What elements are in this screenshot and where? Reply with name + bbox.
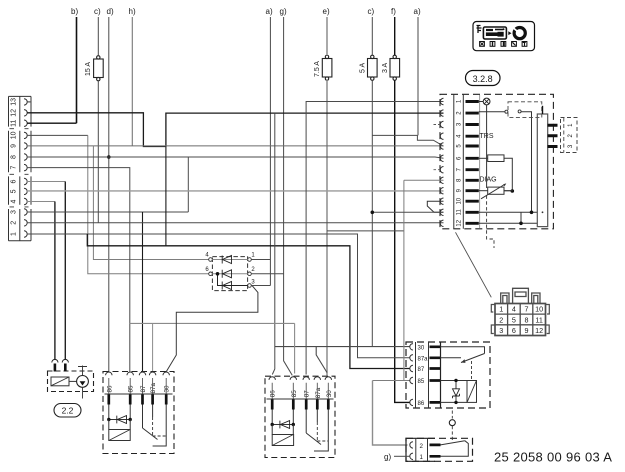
svg-text:12: 12 — [457, 219, 463, 226]
svg-text:10: 10 — [457, 197, 463, 204]
svg-text:6: 6 — [512, 326, 516, 335]
connector face center latch — [513, 288, 529, 303]
svg-text:3 A: 3 A — [382, 63, 389, 73]
wire g) to switch pin1 — [394, 455, 410, 457]
svg-text:DIAG: DIAG — [480, 177, 497, 184]
unit pin arcs 1-12 (left-bulging) — [440, 98, 443, 226]
wire g) first vertical, tees diode pin2, slants to relay K2 pin 85 — [284, 17, 293, 375]
connector body box — [9, 96, 32, 240]
diode D2 row — [212, 273, 247, 275]
svg-text:85: 85 — [291, 390, 298, 398]
wire staircase from pin3 row up to pin8 bus — [187, 157, 189, 212]
relay K1 pin arcs — [106, 372, 170, 375]
wire f) vertical through 3A fuse, corner to relay K3 pin 86 — [395, 17, 410, 402]
svg-text:30: 30 — [326, 390, 333, 398]
diode block left pin 6 — [209, 272, 213, 276]
unit output rows to right connector — [548, 125, 554, 146]
relay K2 switch contact — [306, 410, 321, 445]
icon knob ring — [514, 27, 525, 38]
svg-text:2: 2 — [11, 221, 18, 225]
relay K1 pin labels rotated — [106, 382, 170, 393]
unit DIAG dashed test lead — [487, 196, 494, 249]
pump motor axis line — [78, 366, 87, 399]
svg-text:15 A: 15 A — [85, 62, 92, 76]
fuse 5A body — [368, 55, 378, 80]
svg-text:4: 4 — [11, 199, 18, 203]
relay K3 internal rail — [440, 342, 442, 408]
relay K1 coil box — [109, 420, 130, 430]
icon radio display — [483, 27, 506, 39]
svg-text:a): a) — [266, 7, 273, 16]
wire pin6 row corner down to pump 2.2 right pin — [27, 181, 65, 183]
connector right border with group breaks — [30, 96, 32, 240]
svg-text:11: 11 — [11, 119, 18, 126]
unit pins10-11 external jumper — [427, 201, 443, 212]
wire diode pin3 to a) vertical — [251, 285, 270, 287]
wire pin3 row to staircase — [27, 211, 188, 213]
unit pin numbers rotated — [457, 99, 463, 226]
icon small buttons row — [480, 42, 527, 47]
svg-text:7.5 A: 7.5 A — [314, 61, 321, 77]
diode D3 row with feed from pin6 junction — [218, 274, 248, 286]
switch pin bars — [430, 445, 441, 456]
pin numbers 13..1 rotated — [11, 98, 18, 236]
svg-text:11: 11 — [535, 315, 542, 324]
unit connector strip verticals — [454, 94, 464, 229]
wire h) vertical to left pin9 row — [131, 17, 133, 146]
switch column separators — [416, 438, 428, 461]
junction dot c/pin11 — [371, 211, 375, 215]
relay K3 switch: pin30 lead and lever — [441, 347, 485, 354]
pump coil with diagonal — [51, 377, 69, 386]
wire pin2 row bus to unit pin12 — [27, 222, 444, 224]
icon arrow — [508, 31, 511, 35]
relay K1 junction dots — [107, 418, 110, 421]
relay K2 dashed box — [265, 376, 335, 457]
wire diode pin1 to a) vertical — [251, 259, 270, 261]
svg-text:30: 30 — [164, 385, 171, 393]
wire e) vertical through 7.5A fuse down to relay K2 pin 30 — [326, 17, 328, 376]
relay K3 dashed box — [406, 342, 490, 408]
svg-text:2.2: 2.2 — [62, 406, 74, 416]
svg-text:86: 86 — [270, 390, 277, 398]
connector face top tab left — [501, 293, 509, 304]
svg-text:e): e) — [323, 7, 330, 16]
output connector inner separator — [563, 118, 565, 153]
output connector dashed box — [561, 118, 578, 153]
pump pin arc left — [52, 359, 58, 362]
connector face grid rows — [495, 314, 546, 325]
unit internal gray rail — [479, 95, 481, 228]
svg-text:c): c) — [94, 7, 101, 16]
wire c) left vertical through 15A fuse to left pin2 row — [97, 17, 99, 223]
svg-text:86: 86 — [106, 385, 113, 393]
wire pin12 staircase to unit pin2 bus — [27, 113, 444, 147]
relay K3 pin labels — [418, 345, 429, 407]
junction dot diode pin6 — [216, 272, 220, 276]
wire a) first vertical to diode block pins 1/3 — [269, 17, 271, 286]
switch lever and return loop — [441, 441, 469, 457]
svg-text:13: 13 — [11, 98, 18, 106]
svg-text:87: 87 — [418, 367, 425, 373]
svg-text:5: 5 — [512, 315, 516, 324]
switch pin arcs — [410, 442, 413, 460]
icon box rounded frame — [473, 22, 535, 51]
svg-text:3.2.8: 3.2.8 — [473, 74, 493, 84]
svg-text:30: 30 — [418, 345, 425, 351]
svg-text:1: 1 — [499, 305, 503, 314]
relay K2 pin labels rotated — [270, 387, 333, 398]
wire b) vertical to left pin 11 — [76, 17, 78, 123]
unit pin12 internal row — [479, 222, 538, 224]
svg-text:4: 4 — [512, 305, 516, 314]
unit lamp symbol — [479, 101, 484, 103]
unit pin bars — [466, 102, 479, 224]
svg-text:b): b) — [71, 7, 78, 16]
wire vertical x=165.9 tee from staircase corner to bus — [165, 147, 167, 246]
relay K1 protection diode — [117, 416, 127, 424]
svg-text:12: 12 — [11, 109, 18, 117]
connector face body — [495, 304, 546, 336]
wire y=230.9 from e) tee to unit pin8 drop — [327, 230, 404, 232]
wire pin9 row bus to unit pin5 — [27, 145, 444, 147]
svg-text:85: 85 — [128, 385, 135, 393]
diode block left pin 4 — [209, 258, 213, 262]
svg-text:7: 7 — [11, 166, 18, 170]
wire pin1 branch down to black bus y=245.8 — [87, 234, 409, 369]
svg-text:11: 11 — [457, 209, 463, 216]
wire c) tee to unit pin11 — [372, 211, 443, 213]
wire pin11 row to b — [27, 122, 77, 124]
svg-text:25 2058 00 96 03 A: 25 2058 00 96 03 A — [494, 450, 612, 465]
svg-text:10: 10 — [11, 131, 18, 139]
relay K1 coil leads — [109, 405, 130, 420]
wire horizontal y=346.6 linking K2-86 drop, slant to K2-30, c), K3 pin30 — [275, 347, 410, 373]
svg-text:87: 87 — [140, 385, 147, 393]
svg-text:8: 8 — [525, 315, 529, 324]
svg-text:1: 1 — [420, 454, 424, 461]
icon flag mark — [477, 26, 482, 34]
unit rheostat (variable resistor) — [479, 190, 488, 192]
pump motor circle with triangle — [77, 376, 89, 388]
svg-text:86: 86 — [418, 401, 425, 407]
wire drop from unit-pin2 bus down to relay K2 pin 86 — [272, 113, 275, 374]
svg-text:a): a) — [414, 7, 421, 16]
switch actuator circle — [449, 420, 455, 426]
relay K3 lever arrow head — [461, 359, 466, 363]
svg-text:3: 3 — [499, 326, 503, 335]
svg-text:9: 9 — [525, 326, 529, 335]
svg-text:f): f) — [391, 7, 396, 16]
svg-text:87a: 87a — [150, 382, 157, 393]
svg-text:2: 2 — [420, 443, 424, 450]
pump pin bar right — [64, 364, 67, 372]
unit lamp to rheostat arrow wire — [486, 105, 488, 188]
wire pin13 stub — [27, 101, 30, 103]
label 3.2.8 stadium — [466, 71, 501, 86]
unit switch contact with dashed enclosure — [479, 111, 505, 113]
wire pin5 gray bus to unit pin9 — [27, 190, 444, 192]
wire drop pin3 row to relay K1 pin87 — [142, 212, 144, 372]
svg-text:9: 9 — [11, 144, 18, 148]
wire c) second vertical through 5A fuse, corner to relay K3 pin 30 — [371, 17, 373, 347]
diode block dashed box — [212, 257, 247, 291]
relay K1 pin bars — [109, 394, 166, 405]
wire pin1 row to corner x=357.5 down to relay K3 pin87a — [27, 234, 410, 358]
svg-text:8: 8 — [11, 155, 18, 159]
relay K2 coil box — [272, 425, 293, 435]
label 2.2 stadium — [54, 404, 81, 418]
wire relay K3 pin85 row stub — [373, 380, 410, 382]
wire pin8 row bus to unit pin6 — [27, 157, 444, 158]
junction dot resistor/rheostat — [511, 189, 515, 193]
wire gray bridge between K1 pin85 and K2 pin85 — [130, 323, 295, 373]
pin arcs (right-bulging) for pins 13..1 — [24, 99, 27, 238]
wire pin10 jog segment into unit pin5 — [372, 135, 443, 146]
leader line from unit to connector face — [456, 232, 492, 297]
wire unit pin8 stub — [404, 179, 444, 181]
junction dot switch/pin11 row — [530, 211, 534, 215]
svg-text:g): g) — [384, 452, 391, 461]
relay K1 pin connecting lines through label zone — [109, 378, 166, 394]
fuse 3A body — [390, 55, 400, 80]
relay K2 internal rail line — [267, 398, 334, 400]
svg-text:6: 6 — [11, 179, 18, 183]
svg-text:h): h) — [129, 7, 136, 16]
wire a) second vertical tee into pin10 jog line — [417, 17, 419, 135]
wire unit pin8 drop down to relay K3 pin 85 — [403, 180, 405, 380]
switch actuator dashed link — [451, 411, 453, 441]
svg-text:c): c) — [368, 7, 375, 16]
relay K3 zener diode vertical — [453, 381, 460, 403]
relay K3 pin bars — [430, 347, 441, 403]
unit pin11-12 link — [520, 212, 522, 223]
relay K3 column separator — [416, 342, 429, 408]
svg-text:85: 85 — [418, 379, 425, 385]
wire diode pin3 path to relay K1 pin 30 — [166, 286, 258, 372]
junction dot d/pin8 — [107, 155, 111, 159]
relay K1 dashed box — [103, 372, 174, 454]
diode D1 row — [212, 259, 247, 261]
svg-text:2: 2 — [499, 315, 503, 324]
svg-text:87a: 87a — [315, 387, 322, 398]
wire drop x=93.4 from pin9 row to pin2 row — [93, 146, 208, 260]
unit outer dashed box — [440, 94, 553, 229]
svg-text:12: 12 — [535, 326, 543, 335]
relay K3 diode junction dots — [454, 379, 457, 382]
svg-text:g): g) — [280, 7, 287, 16]
fuse 15A body — [94, 56, 104, 81]
switch box — [406, 438, 473, 461]
unit resistor — [479, 157, 488, 159]
junction dot pin12 row — [519, 222, 523, 226]
wire drop x=87.8 down and right to diode pin6 — [88, 135, 211, 273]
relay K2 protection diode — [280, 421, 290, 429]
wire diode pin2 to g) vertical — [251, 273, 283, 275]
wire from K3-85 row down to switch pin 2 — [373, 381, 408, 446]
pump pin bar left — [54, 364, 57, 372]
svg-text:3: 3 — [11, 210, 18, 214]
diode block right pin 2 — [248, 272, 252, 276]
wire pin10 row to corner x=87.8 — [27, 134, 88, 136]
wire pin4 row corner down to pump 2.2 left pin — [27, 201, 55, 203]
svg-text:5: 5 — [11, 189, 18, 193]
relay K2 pin bars — [272, 399, 328, 410]
relay K3 pin85 and pin86 leads — [441, 381, 468, 403]
connector face grid columns — [508, 304, 533, 336]
svg-text:5 A: 5 A — [360, 63, 367, 73]
group separator dashes — [10, 129, 29, 207]
svg-text:1: 1 — [11, 232, 18, 236]
unit pin11 internal row — [479, 211, 538, 213]
wire bridge tee down to K1 pin 87a — [152, 323, 154, 371]
relay K3 coil box with diagonal — [467, 381, 477, 403]
output connector pin numbers rotated — [568, 123, 574, 148]
svg-text:d): d) — [107, 7, 114, 16]
wire coil to motor — [69, 380, 77, 382]
svg-text:7: 7 — [525, 305, 529, 314]
unit amplifier tall rectangle — [537, 114, 547, 227]
relay K2 coil leads — [272, 410, 293, 425]
connector face top tab right — [532, 293, 540, 304]
relay K2 pin connecting lines through label zone — [272, 383, 328, 399]
wire unit pin1 bus with corner down to relay K2 pin 87 — [306, 102, 443, 375]
diode block right pin 3 — [248, 284, 252, 288]
pump pin arc right — [62, 359, 68, 362]
relay K1 switch contact — [143, 405, 158, 440]
relay K1 internal rail line — [105, 393, 173, 395]
pump dashed box — [48, 371, 94, 392]
relay K2 pin arcs — [269, 377, 332, 380]
connector face side clips — [491, 305, 549, 334]
svg-text:87: 87 — [304, 390, 311, 398]
fuse 7.5A body — [322, 55, 332, 80]
amplifier internal mark — [542, 211, 544, 213]
wire d) vertical to junction on left pin8 row, continues to relay K1 pin 86 — [108, 17, 110, 372]
unit output pin bars — [548, 125, 558, 146]
svg-text:TRS: TRS — [480, 133, 494, 140]
relay K3 pin arcs (left-bulging) — [410, 344, 413, 406]
diode block right pin 1 — [248, 258, 252, 262]
wire pin7 row corner down to bridge and relay K1 pin85 — [27, 168, 130, 372]
relay K2 junction dots — [271, 423, 274, 426]
relay K3 dashed actuating link — [471, 361, 473, 381]
svg-text:10: 10 — [535, 305, 543, 314]
svg-text:87a: 87a — [418, 356, 429, 362]
unit dashed stubs pins 3 and 7 — [434, 125, 441, 170]
amplifier top terminal tick — [542, 106, 544, 114]
connector face cell numbers — [499, 305, 543, 335]
